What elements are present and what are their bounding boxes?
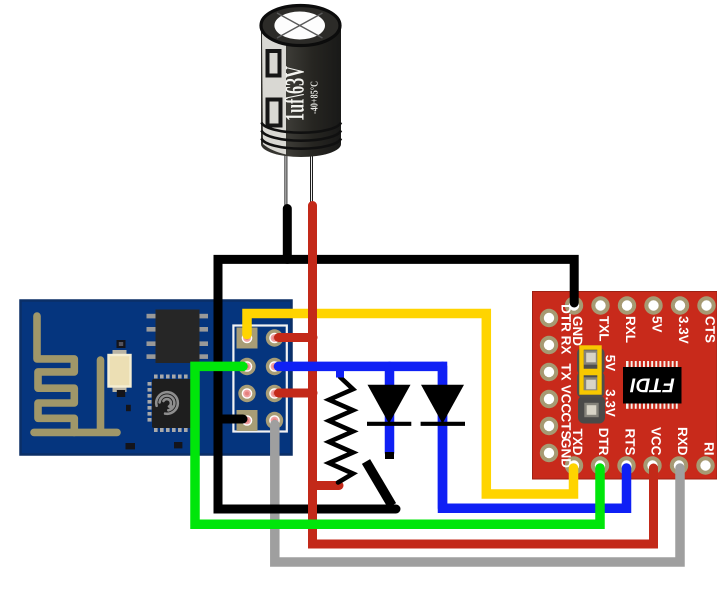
diode D2 xyxy=(421,385,465,424)
wire blue: diode D2 branch down xyxy=(438,366,448,508)
ESP header pin centers xyxy=(242,333,280,426)
pin label CTS (left) xyxy=(561,413,571,439)
FTDI chip U5 pin combs xyxy=(626,361,680,409)
FTDI bottom pin row pads xyxy=(565,456,715,474)
pin label RXD xyxy=(678,428,687,455)
wire blue stub: resistor top xyxy=(336,366,344,377)
pin label TXL xyxy=(600,316,609,341)
wire red stub: ESP pin CH_PD xyxy=(279,389,314,398)
diode D1 xyxy=(367,385,411,424)
wire blue: diode D1 branch xyxy=(385,366,395,453)
jumper JP1 (yellow) xyxy=(582,348,600,393)
switch S1 lever xyxy=(366,462,392,506)
ESP8266 ESP-01 module U1 (blue board) xyxy=(21,301,292,455)
electrolytic capacitor C1 body xyxy=(261,6,341,158)
wire blue upper: ESP GPIO0 rail to diodes and resistor xyxy=(279,366,443,425)
header J1 square pad pin 1 (TX) xyxy=(237,328,258,349)
pin label 3.3V (top) xyxy=(679,316,689,343)
FTDI top pin row pads xyxy=(565,296,716,314)
pin label TXD xyxy=(573,429,582,455)
FTDI left pin column pads xyxy=(540,309,558,462)
SMD capacitor C2 xyxy=(126,405,131,411)
wire red stub: ESP pin 8 (3.3V) xyxy=(279,333,314,342)
pin label RXL xyxy=(626,317,635,343)
pin label VCC (left) xyxy=(561,385,571,413)
SMD resistor R2 xyxy=(117,340,126,348)
Espressif logo on U4 xyxy=(156,392,178,414)
crystal Y1 pads xyxy=(113,350,127,357)
antenna bottom feed trace xyxy=(74,360,117,432)
wire yellow: ESP TX to FTDI TXD xyxy=(247,314,574,495)
polarity mark rectangles on stripe xyxy=(268,51,280,76)
can top xyxy=(261,6,340,46)
header J1 square pad pin 7 (GND) xyxy=(237,410,258,431)
flash chip U3 left pins xyxy=(147,314,209,359)
electrolytic capacitor C1 thin leads xyxy=(286,152,312,208)
vent (white) with score lines xyxy=(274,12,325,40)
pin label VCC (bottom) xyxy=(651,427,661,455)
flash chip U3 body xyxy=(156,310,200,364)
pin label RX xyxy=(562,337,571,355)
wire blue lower: to FTDI RTS xyxy=(443,425,627,508)
FTDI chip U5 body xyxy=(623,367,682,404)
header J1 outline (white silk box) xyxy=(233,326,286,432)
wire green: ESP GPIO0 to FTDI DTR xyxy=(195,366,600,524)
FTDI basic breakout U2 (red board) xyxy=(533,292,717,480)
value label 1uf 63V xyxy=(284,66,303,119)
PCB antenna (meander trace) xyxy=(34,316,74,432)
header J1 round pads xyxy=(238,329,283,429)
label 5V xyxy=(606,355,615,371)
wire black: GND stub into ESP pin 7 xyxy=(218,415,243,424)
voltage select jumper pads under JP1 xyxy=(577,348,605,375)
SMD resistor R5 xyxy=(174,442,182,448)
FTDI chip U5 label (printed upside-down) xyxy=(630,379,674,393)
label 3.3V xyxy=(606,389,616,416)
wire black: capacitor negative drop xyxy=(283,209,292,260)
crystal Y1 (beige component) xyxy=(109,355,131,387)
voltage select pad 3.3V (uncovered) xyxy=(578,396,605,424)
pin label RI xyxy=(705,443,714,455)
pin label TX xyxy=(562,364,571,381)
ESP8266 QFN chip U4 body xyxy=(152,379,192,428)
pin label DTR (left) xyxy=(562,305,571,332)
temperature label -40+85C xyxy=(311,82,318,114)
pin label RTS xyxy=(625,429,635,455)
wire red: capacitor positive / VCC bus to FTDI VCC xyxy=(313,206,654,545)
pin label DTR (bottom) xyxy=(599,429,608,456)
wire gray: ESP GPIO2 to FTDI RXD xyxy=(275,425,680,563)
pin label GND (left) xyxy=(561,439,571,468)
wire end cap (D1 branch terminal) xyxy=(385,452,394,459)
pin label 5V (top) xyxy=(652,316,661,332)
pin label CTS (top) xyxy=(705,317,715,343)
bottom crimp rings xyxy=(262,123,342,133)
ESP8266 QFN chip U4 pins xyxy=(148,375,197,433)
SMD resistor R4 xyxy=(126,443,136,449)
wire black: GND bus (top rail, left drop, bottom rail) xyxy=(218,259,574,509)
pin label GND (top) xyxy=(573,317,583,346)
resistor R1 (zigzag) xyxy=(329,377,353,483)
negative stripe xyxy=(262,27,286,155)
wire red stub: to resistor R1 bottom xyxy=(313,481,340,490)
SMD resistor R3 xyxy=(117,390,125,397)
